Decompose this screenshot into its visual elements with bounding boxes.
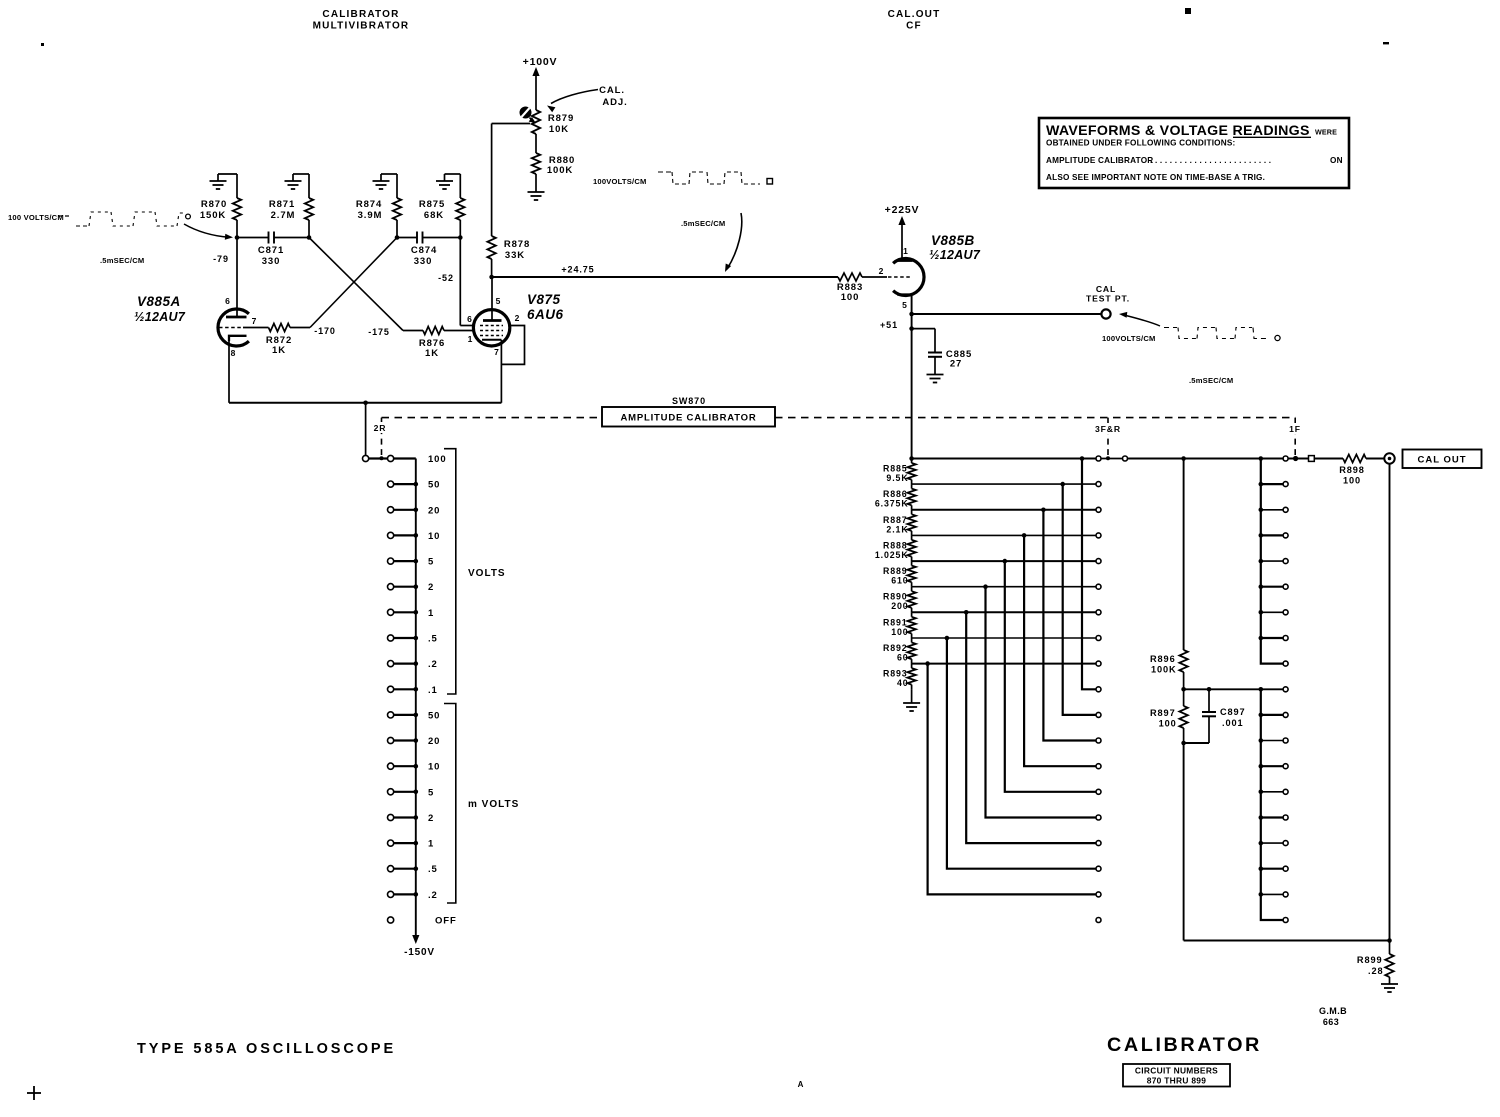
svg-text:V875: V875 bbox=[527, 292, 561, 307]
svg-text:.1: .1 bbox=[428, 685, 438, 696]
wire wafer staircase 3 bbox=[1024, 535, 1096, 766]
node bottom right bbox=[1387, 938, 1392, 943]
speck dot top-left bbox=[41, 43, 44, 46]
wire divider tap 4 to wafer contact bbox=[912, 560, 1096, 562]
node R896 top bbox=[1181, 456, 1186, 461]
wire wafer to output bus bbox=[1128, 458, 1283, 460]
svg-text:2.1K: 2.1K bbox=[886, 524, 908, 534]
left switch contact row .1 bbox=[394, 688, 416, 690]
V875 suppressor tie (pin 2) bbox=[501, 326, 524, 365]
middle wafer contact row 16 bbox=[1096, 866, 1101, 871]
wire 1F stub row 6 bbox=[1261, 611, 1283, 613]
box CIRCUIT NUMBERS bbox=[1123, 1064, 1230, 1087]
svg-text:100VOLTS/CM: 100VOLTS/CM bbox=[1102, 334, 1156, 343]
cross-couple wire R871 node to V875 grid bbox=[309, 238, 403, 331]
svg-text:.5: .5 bbox=[428, 864, 438, 875]
svg-text:R892: R892 bbox=[883, 643, 908, 653]
svg-text:5: 5 bbox=[428, 787, 434, 798]
1F wafer contact row 11 bbox=[1283, 738, 1288, 743]
svg-text:1: 1 bbox=[468, 334, 474, 344]
svg-text:CF: CF bbox=[906, 21, 922, 32]
svg-text:R897: R897 bbox=[1150, 708, 1176, 718]
svg-text:R887: R887 bbox=[883, 515, 908, 525]
triode V885A envelope bbox=[218, 309, 249, 346]
svg-text:.001: .001 bbox=[1222, 718, 1243, 728]
svg-text:6: 6 bbox=[467, 314, 473, 324]
cross-couple wire R874 node to V885A grid bbox=[310, 238, 397, 328]
svg-text:2: 2 bbox=[428, 582, 434, 593]
svg-text:R870: R870 bbox=[201, 199, 227, 210]
svg-text:+24.75: +24.75 bbox=[561, 265, 594, 275]
left switch arm contact bbox=[363, 455, 369, 461]
svg-text:2R: 2R bbox=[374, 423, 387, 433]
middle wafer contact row 4 bbox=[1096, 559, 1101, 564]
svg-text:R893: R893 bbox=[883, 669, 908, 679]
1F wafer contact row 16 bbox=[1283, 866, 1288, 871]
svg-text:20: 20 bbox=[428, 736, 440, 747]
svg-text:CAL OUT: CAL OUT bbox=[1417, 455, 1466, 466]
svg-text:8: 8 bbox=[231, 348, 237, 358]
note box WAVEFORMS & VOLTAGE READINGS bbox=[1039, 118, 1349, 188]
resistor R889 bbox=[907, 566, 915, 583]
svg-text:150K: 150K bbox=[200, 210, 226, 221]
1F wafer contact row 9 bbox=[1283, 687, 1288, 692]
wire cross-couple to R876 bbox=[403, 330, 423, 332]
svg-text:R886: R886 bbox=[883, 489, 908, 499]
wire R872 to cross-couple bbox=[290, 327, 310, 329]
bracket VOLTS bbox=[444, 449, 456, 694]
svg-text:5: 5 bbox=[902, 300, 908, 310]
node R875-C874 bbox=[458, 235, 463, 240]
node V885A plate bbox=[235, 235, 240, 240]
middle wafer contact row 6 bbox=[1096, 610, 1101, 615]
1F wafer contact row 2 bbox=[1283, 507, 1288, 512]
waveform pointer arrow bbox=[184, 224, 229, 237]
svg-text:6.375K: 6.375K bbox=[875, 499, 909, 509]
label 2R bbox=[371, 422, 388, 433]
wire wafer staircase 8 bbox=[928, 664, 1096, 895]
V885A cathode lead bbox=[228, 341, 230, 403]
svg-text:-52: -52 bbox=[438, 273, 454, 283]
wire R874 node to C874 bbox=[397, 237, 417, 239]
left switch contact row 1 bbox=[394, 842, 416, 844]
svg-text:.2: .2 bbox=[428, 890, 438, 901]
wire 1F stub row 13 bbox=[1261, 791, 1283, 793]
svg-text:R899: R899 bbox=[1357, 955, 1383, 965]
wire wafer staircase 7 bbox=[947, 638, 1096, 869]
svg-text:7: 7 bbox=[252, 316, 258, 326]
wire 1F bus upper bbox=[1261, 459, 1283, 664]
1F wafer contact row 8 bbox=[1283, 661, 1288, 666]
wire V885A grid to R872 bbox=[243, 327, 269, 329]
svg-text:C874: C874 bbox=[411, 245, 437, 256]
svg-text:1: 1 bbox=[428, 839, 434, 850]
svg-text:. . . . . . . . . . . . . . .: . . . . . . . . . . . . . . . . . . . . … bbox=[1150, 156, 1271, 165]
svg-text:100: 100 bbox=[1159, 719, 1177, 729]
left switch contact row .5 bbox=[394, 637, 416, 639]
V875 grids (dashed) bbox=[480, 325, 503, 327]
wire 1F stub row 1 bbox=[1261, 483, 1283, 485]
1F wafer contact row 0 bbox=[1283, 456, 1288, 461]
resistor R871 bbox=[308, 174, 310, 198]
node 1F bus top bbox=[1259, 456, 1264, 461]
resistor R899 bbox=[1389, 941, 1391, 955]
svg-text:+100V: +100V bbox=[523, 56, 558, 68]
svg-text:610: 610 bbox=[891, 576, 908, 586]
left switch contact row 50 bbox=[394, 483, 416, 485]
svg-text:R874: R874 bbox=[356, 199, 382, 210]
svg-text:C897: C897 bbox=[1220, 707, 1246, 717]
1F wafer contact row 18 bbox=[1283, 918, 1288, 923]
wire V885A plate lead bbox=[236, 238, 238, 318]
svg-text:R889: R889 bbox=[883, 566, 908, 576]
svg-text:-79: -79 bbox=[213, 254, 229, 264]
wire divider tap 5 to wafer contact bbox=[912, 586, 1096, 588]
resistor R891 bbox=[907, 617, 915, 634]
resistor R886 bbox=[907, 489, 915, 506]
wire bottom return bbox=[1184, 940, 1390, 942]
svg-text:TEST PT.: TEST PT. bbox=[1086, 294, 1130, 304]
svg-text:2: 2 bbox=[515, 313, 521, 323]
svg-text:-150V: -150V bbox=[404, 947, 435, 958]
wire R879 to R880 bbox=[535, 134, 537, 153]
ground below R880 bbox=[535, 174, 537, 192]
wire to CAL TEST PT bbox=[912, 313, 1101, 315]
ground above R871 bbox=[293, 173, 309, 175]
waveform pointer arrow (test pt) bbox=[1122, 315, 1160, 327]
node R896-R897 junction bbox=[1181, 687, 1186, 692]
resistor R874 bbox=[396, 174, 398, 198]
svg-text:MULTIVIBRATOR: MULTIVIBRATOR bbox=[313, 21, 410, 32]
resistor R898 bbox=[1343, 455, 1366, 463]
V885B plate bar bbox=[897, 259, 913, 262]
svg-text:3.9M: 3.9M bbox=[358, 210, 383, 221]
1F wafer contact row 1 bbox=[1283, 482, 1288, 487]
resistor R887 bbox=[907, 514, 915, 531]
svg-text:AMPLITUDE CALIBRATOR: AMPLITUDE CALIBRATOR bbox=[1046, 156, 1153, 165]
node 1F bus2 top bbox=[1259, 687, 1264, 692]
middle wafer contact row 17 bbox=[1096, 892, 1101, 897]
svg-text:50: 50 bbox=[428, 710, 440, 721]
waveform terminal circle bbox=[186, 214, 191, 219]
svg-text:CIRCUIT NUMBERS: CIRCUIT NUMBERS bbox=[1135, 1066, 1218, 1076]
middle wafer contact row 1 bbox=[1096, 482, 1101, 487]
1F arm square contact bbox=[1289, 458, 1344, 460]
ground above R870 bbox=[218, 173, 237, 175]
left switch OFF contact bbox=[388, 917, 394, 923]
resistor R885 bbox=[907, 463, 915, 480]
resistor R892 bbox=[907, 643, 915, 660]
svg-text:10K: 10K bbox=[549, 124, 569, 135]
wire 1F stub row 17 bbox=[1261, 893, 1283, 895]
SW870 dashed linkage left bbox=[382, 417, 603, 419]
svg-text:2.7M: 2.7M bbox=[271, 210, 296, 221]
svg-text:R878: R878 bbox=[504, 239, 530, 250]
V885A plate bar bbox=[226, 316, 247, 319]
wire 1F bus lower bbox=[1261, 689, 1283, 920]
middle wafer contact row 18 bbox=[1096, 918, 1101, 923]
svg-text:VOLTS: VOLTS bbox=[468, 568, 506, 579]
svg-text:CAL.: CAL. bbox=[599, 85, 625, 96]
svg-text:R890: R890 bbox=[883, 592, 908, 602]
wire R897 bottom drop bbox=[1183, 743, 1185, 941]
resistor R890 bbox=[907, 591, 915, 608]
resistor R897 bbox=[1183, 689, 1185, 706]
svg-text:-170: -170 bbox=[314, 326, 336, 336]
1F wafer contact row 10 bbox=[1283, 712, 1288, 717]
wire between 3F&R arm contacts bbox=[1101, 458, 1122, 460]
middle wafer contact row 15 bbox=[1096, 841, 1101, 846]
svg-text:330: 330 bbox=[414, 256, 433, 267]
svg-text:C871: C871 bbox=[258, 245, 284, 256]
wire divider tap 0 to wafer contact bbox=[912, 458, 1096, 460]
left switch contact row 1 bbox=[394, 611, 416, 613]
svg-text:-175: -175 bbox=[368, 327, 390, 337]
node R897 bottom bbox=[1181, 741, 1186, 746]
svg-text:R879: R879 bbox=[548, 113, 574, 124]
node +24.75 bbox=[489, 275, 494, 280]
node cathode to switch feed bbox=[363, 401, 368, 406]
svg-text:.28: .28 bbox=[1368, 966, 1383, 976]
left switch contact row 2 bbox=[394, 586, 416, 588]
1F wafer contact row 7 bbox=[1283, 636, 1288, 641]
1F wafer contact row 15 bbox=[1283, 841, 1288, 846]
node V885B cathode to chain bbox=[909, 456, 914, 461]
left switch contact row 50 bbox=[394, 714, 416, 716]
wire switch feed drop bbox=[365, 403, 367, 456]
svg-text:R871: R871 bbox=[269, 199, 295, 210]
resistor R876 bbox=[423, 327, 444, 335]
middle wafer contact row 10 bbox=[1096, 712, 1101, 717]
V885B cathode lead bbox=[911, 295, 913, 459]
svg-text:1.025K: 1.025K bbox=[875, 550, 909, 560]
svg-text:2: 2 bbox=[879, 266, 885, 276]
svg-text:ADJ.: ADJ. bbox=[602, 97, 627, 108]
wire cathode bus bbox=[229, 402, 501, 404]
svg-text:SW870: SW870 bbox=[672, 396, 706, 406]
wire divider tap 6 to wafer contact bbox=[912, 611, 1096, 613]
middle wafer contact row 7 bbox=[1096, 636, 1101, 641]
svg-text:20: 20 bbox=[428, 505, 440, 516]
1F wafer contact row 13 bbox=[1283, 789, 1288, 794]
svg-text:100: 100 bbox=[428, 454, 447, 465]
left switch contact row 10 bbox=[394, 534, 416, 536]
svg-text:60: 60 bbox=[897, 653, 909, 663]
svg-text:CAL: CAL bbox=[1096, 284, 1116, 294]
1F arm dot bbox=[1293, 456, 1298, 461]
SW870 dashed drop 2R bbox=[381, 418, 383, 455]
ground above R875 bbox=[445, 173, 461, 175]
svg-text:9.5K: 9.5K bbox=[886, 473, 908, 483]
resistor R875 bbox=[459, 174, 461, 198]
wire divider tap 3 to wafer contact bbox=[912, 534, 1096, 536]
left switch contact row 2 bbox=[394, 816, 416, 818]
capacitor C874 bbox=[416, 232, 418, 244]
svg-text:10: 10 bbox=[428, 531, 440, 542]
svg-text:+225V: +225V bbox=[885, 204, 920, 216]
svg-text:V885B: V885B bbox=[931, 233, 975, 248]
wire 1F stub row 10 bbox=[1261, 714, 1283, 716]
svg-text:TYPE 585A OSCILLOSCOPE: TYPE 585A OSCILLOSCOPE bbox=[137, 1041, 396, 1057]
svg-text:½12AU7: ½12AU7 bbox=[929, 248, 981, 262]
1F wafer contact row 3 bbox=[1283, 533, 1288, 538]
node cal test pt branch bbox=[909, 312, 914, 317]
svg-text:100: 100 bbox=[891, 627, 908, 637]
capacitor C871 bbox=[268, 232, 270, 244]
1F wafer contact row 12 bbox=[1283, 764, 1288, 769]
wire divider tap 8 to wafer contact bbox=[912, 663, 1096, 665]
ground above R874 bbox=[381, 173, 397, 175]
svg-text:1F: 1F bbox=[1289, 424, 1301, 434]
svg-text:WERE: WERE bbox=[1315, 128, 1337, 137]
wire junction row to 1F contact bbox=[1184, 688, 1283, 690]
potentiometer R879 bbox=[532, 110, 540, 134]
ground below R893 bbox=[911, 690, 913, 703]
wire plate node A to C871 bbox=[237, 237, 269, 239]
V875 cathode bbox=[482, 339, 501, 341]
left switch contact row .2 bbox=[394, 662, 416, 664]
V875 plate lead (pin 5) bbox=[491, 277, 493, 321]
V885A grid (dashed) bbox=[219, 327, 243, 329]
V885A cathode bbox=[229, 336, 247, 341]
svg-text:.5mSEC/CM: .5mSEC/CM bbox=[681, 219, 725, 228]
wire wafer staircase 5 bbox=[986, 587, 1096, 818]
svg-text:CALIBRATOR: CALIBRATOR bbox=[322, 9, 399, 20]
wire 1F stub row 5 bbox=[1261, 586, 1283, 588]
wire C871 to R871 node bbox=[274, 237, 309, 239]
middle wafer contact row 5 bbox=[1096, 584, 1101, 589]
resistor R896 bbox=[1179, 650, 1187, 672]
middle wafer contact row 12 bbox=[1096, 764, 1101, 769]
wire wiper to node bbox=[492, 123, 530, 125]
wire R898 to terminal bbox=[1366, 458, 1384, 460]
svg-text:870 THRU 899: 870 THRU 899 bbox=[1147, 1076, 1207, 1086]
svg-text:1: 1 bbox=[428, 608, 434, 619]
node R871-C871 bbox=[307, 235, 312, 240]
svg-text:50: 50 bbox=[428, 480, 440, 491]
svg-text:68K: 68K bbox=[424, 210, 444, 221]
waveform sketch (cal test pt) bbox=[1164, 327, 1177, 329]
R879 wiper screw adjust bbox=[520, 107, 532, 119]
wire wafer staircase 4 bbox=[1005, 561, 1096, 792]
wire C874 to R875 node bbox=[423, 237, 461, 239]
wire 1F stub row 11 bbox=[1261, 740, 1283, 742]
svg-text:R875: R875 bbox=[419, 199, 445, 210]
middle wafer contact row 8 bbox=[1096, 661, 1101, 666]
SW870 dashed drop 3F&R bbox=[1107, 418, 1109, 455]
svg-text:.5: .5 bbox=[428, 634, 438, 645]
svg-text:R896: R896 bbox=[1150, 654, 1176, 664]
1F wafer contact row 14 bbox=[1283, 815, 1288, 820]
left bus to -150V bbox=[415, 459, 417, 937]
capacitor C897 bbox=[1208, 689, 1210, 712]
V875 cathode lead (pin 7) bbox=[500, 340, 502, 403]
svg-text:1K: 1K bbox=[425, 348, 439, 359]
svg-text:ON: ON bbox=[1330, 156, 1343, 165]
wire 1F stub row 16 bbox=[1261, 868, 1283, 870]
svg-text:100VOLTS/CM: 100VOLTS/CM bbox=[593, 177, 647, 186]
svg-text:100K: 100K bbox=[547, 165, 573, 176]
V875 plate bar bbox=[483, 319, 502, 322]
svg-text:m VOLTS: m VOLTS bbox=[468, 799, 519, 810]
wire divider tap 2 to wafer contact bbox=[912, 509, 1096, 511]
wire 1F stub row 15 bbox=[1261, 842, 1283, 844]
resistor R870 bbox=[236, 174, 238, 198]
wire 1F stub row 14 bbox=[1261, 816, 1283, 818]
svg-text:CALIBRATOR: CALIBRATOR bbox=[1107, 1034, 1262, 1056]
resistor R893 bbox=[907, 668, 915, 685]
CAL TEST PT terminal bbox=[1101, 309, 1110, 318]
svg-text:1: 1 bbox=[903, 246, 909, 256]
speck dash right bbox=[1383, 42, 1389, 44]
wire R883 to V885B grid bbox=[862, 276, 887, 278]
svg-text:7: 7 bbox=[494, 347, 500, 357]
middle wafer contact row 13 bbox=[1096, 789, 1101, 794]
mark plus bottom-left bbox=[27, 1092, 41, 1094]
middle wafer arm second contact bbox=[1123, 456, 1128, 461]
CAL OUT terminal bbox=[1384, 453, 1394, 463]
left switch contact row .5 bbox=[394, 868, 416, 870]
V885B cathode bbox=[897, 293, 912, 295]
svg-text:1K: 1K bbox=[272, 345, 286, 356]
speck square top-right bbox=[1185, 8, 1191, 14]
wire 1F stub row 2 bbox=[1261, 509, 1283, 511]
wire wafer staircase 6 bbox=[966, 612, 1095, 843]
wire 1F stub row 7 bbox=[1261, 637, 1283, 639]
left switch contact row 20 bbox=[394, 739, 416, 741]
svg-text:200: 200 bbox=[891, 601, 908, 611]
svg-text:5: 5 bbox=[428, 557, 434, 568]
bracket mVOLTS bbox=[444, 704, 456, 904]
svg-text:WAVEFORMS & VOLTAGE READINGS: WAVEFORMS & VOLTAGE READINGS bbox=[1046, 123, 1310, 139]
svg-text:100K: 100K bbox=[1151, 665, 1177, 675]
middle wafer contact row 3 bbox=[1096, 533, 1101, 538]
SW870 dashed linkage right bbox=[775, 417, 1295, 419]
svg-text:2: 2 bbox=[428, 813, 434, 824]
svg-text:.2: .2 bbox=[428, 659, 438, 670]
svg-text:40: 40 bbox=[897, 678, 909, 688]
wire 1F stub row 3 bbox=[1261, 534, 1283, 536]
middle wafer contact row 2 bbox=[1096, 507, 1101, 512]
label 1F bbox=[1287, 423, 1304, 434]
wire divider tap 7 to wafer contact bbox=[912, 637, 1096, 639]
pentode V875 envelope bbox=[473, 310, 509, 346]
svg-text:G.M.B: G.M.B bbox=[1319, 1006, 1347, 1016]
triode V885B envelope bbox=[893, 259, 924, 296]
resistor R880 bbox=[532, 153, 540, 174]
svg-text:.5mSEC/CM: .5mSEC/CM bbox=[1189, 376, 1233, 385]
svg-text:.5mSEC/CM: .5mSEC/CM bbox=[100, 256, 144, 265]
svg-text:+51: +51 bbox=[880, 320, 898, 330]
wire to R896 bbox=[1183, 459, 1185, 651]
svg-text:CAL.OUT: CAL.OUT bbox=[888, 9, 941, 20]
resistor R878 bbox=[487, 236, 495, 259]
capacitor C885 bbox=[912, 328, 935, 330]
1F wafer contact row 17 bbox=[1283, 892, 1288, 897]
wire 1F stub row 4 bbox=[1261, 560, 1283, 562]
waveform terminal circle (right) bbox=[1275, 335, 1280, 340]
left switch first contact bbox=[388, 455, 394, 461]
label 3F&R bbox=[1091, 423, 1125, 434]
svg-text:R891: R891 bbox=[883, 617, 908, 627]
left switch contact row 5 bbox=[394, 791, 416, 793]
label box CAL OUT bbox=[1403, 450, 1482, 469]
svg-text:OBTAINED UNDER FOLLOWING CONDI: OBTAINED UNDER FOLLOWING CONDITIONS: bbox=[1046, 139, 1235, 148]
svg-text:R885: R885 bbox=[883, 464, 908, 474]
svg-text:33K: 33K bbox=[505, 250, 525, 261]
svg-text:27: 27 bbox=[950, 359, 962, 370]
wire row 100 arm to bus bbox=[366, 457, 416, 459]
